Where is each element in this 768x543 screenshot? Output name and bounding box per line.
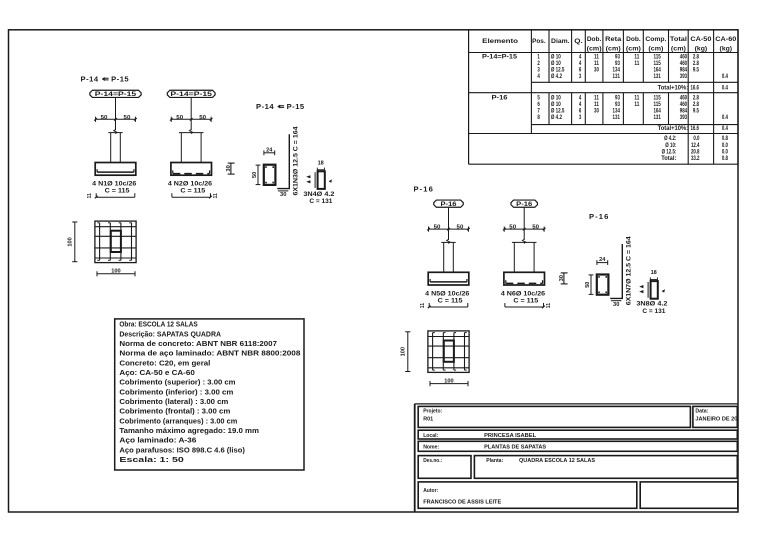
svg-text:(cm): (cm) (648, 45, 663, 52)
table header texts (482, 36, 737, 52)
hook length bracket 11 P-14=P-15 (172, 196, 211, 198)
column cross-section with stirrup (597, 275, 609, 295)
svg-text:30: 30 (594, 67, 599, 74)
leader line from pill to column (523, 207, 525, 240)
svg-text:Norma de concreto: ABNT NBR 61: Norma de concreto: ABNT NBR 6118:2007 (119, 339, 277, 348)
svg-text:P-14: P-14 (81, 75, 99, 84)
column marker pill P-16 (434, 200, 464, 207)
svg-text:Cobrimento (frontal) : 3.00 cm: Cobrimento (frontal) : 3.00 cm (119, 407, 230, 416)
title block: local box (418, 430, 737, 439)
svg-text:Aço: CA-50 e CA-60: Aço: CA-50 e CA-60 (119, 368, 194, 377)
svg-text:P-14=P-15: P-14=P-15 (482, 54, 518, 61)
svg-text:131: 131 (613, 114, 620, 121)
dimension 50/50 under pill P-14=P-15 (171, 118, 211, 120)
svg-text:0.4: 0.4 (722, 114, 728, 121)
plan horizontal rebars (428, 336, 469, 338)
svg-text:393: 393 (680, 114, 687, 121)
stirrup outline (651, 281, 658, 299)
plan vertical dimension 100 (407, 332, 409, 372)
footing rebar P-16 (430, 281, 467, 283)
title block: autor box (418, 482, 637, 508)
column section dimension 50 (590, 275, 592, 295)
footing body P-16 (428, 272, 469, 285)
svg-text:4 N6Ø 10c/26: 4 N6Ø 10c/26 (501, 290, 546, 297)
svg-text:18: 18 (651, 270, 657, 276)
svg-text:131: 131 (653, 73, 660, 80)
title block: des.no box (418, 456, 471, 479)
svg-text:Ø 4.2: Ø 4.2 (551, 73, 562, 80)
stirrup outline (318, 171, 325, 189)
footing plan view (95, 221, 136, 263)
svg-text:Diam.: Diam. (551, 38, 570, 45)
table summary rows (661, 135, 728, 162)
svg-text:0.4: 0.4 (722, 85, 728, 92)
title block: empty box (640, 482, 738, 508)
svg-text:30: 30 (559, 275, 565, 282)
vertical starter bar L-shape (610, 244, 622, 298)
footing body P-16 (504, 272, 545, 285)
svg-text:11: 11 (546, 303, 552, 309)
svg-text:50: 50 (101, 115, 108, 121)
svg-text:9.5: 9.5 (693, 67, 699, 74)
leg dimension 30 (611, 300, 621, 302)
svg-text:0.4: 0.4 (722, 73, 728, 80)
footing height dimension 30 (230, 163, 232, 174)
footing rebar P-14=P-15 (172, 170, 174, 173)
column shaft P-16 (441, 241, 455, 243)
stirrup hook arrows (306, 175, 310, 178)
svg-text:Total+10%:: Total+10%: (658, 85, 689, 92)
svg-text:6X1N7Ø 12.5 C = 164: 6X1N7Ø 12.5 C = 164 (625, 236, 632, 306)
svg-text:P-16: P-16 (492, 94, 509, 101)
svg-text:4: 4 (537, 73, 540, 80)
svg-text:P-16: P-16 (516, 201, 533, 208)
svg-text:9.5: 9.5 (693, 107, 699, 114)
svg-text:C = 115: C = 115 (438, 297, 463, 304)
svg-text:11: 11 (634, 60, 639, 67)
table rows element P-14=P-15 (482, 54, 728, 92)
svg-text:50: 50 (532, 225, 539, 231)
hook length bracket 11 P-14=P-15 (96, 196, 135, 198)
svg-text:4 N5Ø 10c/26: 4 N5Ø 10c/26 (425, 290, 470, 297)
svg-text:131: 131 (653, 114, 660, 121)
svg-text:131: 131 (613, 73, 620, 80)
svg-text:Cobrimento (inferior) : 3.00 c: Cobrimento (inferior) : 3.00 cm (119, 387, 233, 396)
svg-text:100: 100 (111, 269, 120, 275)
svg-text:Local:: Local: (423, 433, 438, 439)
stirrup hook line (314, 172, 316, 188)
svg-text:50: 50 (509, 225, 516, 231)
svg-text:4 N1Ø 10c/26: 4 N1Ø 10c/26 (92, 181, 137, 188)
svg-text:50: 50 (176, 115, 183, 121)
svg-text:11: 11 (634, 101, 639, 108)
plan column section (444, 341, 454, 362)
plan horizontal dimension 100 (430, 383, 468, 385)
svg-text:Total:: Total: (661, 155, 676, 162)
rebar schedule table grid (469, 30, 738, 164)
svg-text:50: 50 (124, 115, 131, 121)
leader line from pill to column (190, 98, 192, 131)
svg-text:FRANCISCO DE ASSIS LEITE: FRANCISCO DE ASSIS LEITE (423, 499, 501, 505)
svg-text:P-14=P-15: P-14=P-15 (170, 91, 212, 98)
column section dimension 50 (257, 165, 259, 185)
svg-text:R01: R01 (423, 416, 434, 422)
svg-text:Pos.: Pos. (532, 38, 546, 45)
svg-text:Concreto: C20, em geral: Concreto: C20, em geral (119, 358, 210, 367)
svg-text:Autor:: Autor: (423, 488, 438, 494)
notes text (119, 320, 300, 464)
svg-text:Projeto:: Projeto: (423, 409, 442, 415)
svg-text:P-15: P-15 (287, 102, 305, 111)
svg-text:8: 8 (537, 114, 540, 121)
plan column section (111, 231, 121, 252)
svg-text:C = 131: C = 131 (309, 198, 333, 205)
svg-text:3N8Ø 4.2: 3N8Ø 4.2 (636, 301, 668, 308)
svg-text:PRINCESA ISABEL: PRINCESA ISABEL (484, 433, 537, 439)
column shaft P-16 (512, 241, 537, 243)
svg-text:P-14: P-14 (256, 102, 274, 111)
plan horizontal dimension 100 (97, 273, 135, 275)
svg-text:P-16: P-16 (441, 201, 458, 208)
hook length bracket 11 P-16 (505, 306, 544, 308)
leader line from pill to column (448, 207, 450, 240)
dimension 50/50 under pill P-14=P-15 (96, 118, 136, 120)
svg-text:100: 100 (68, 237, 74, 246)
svg-text:(cm): (cm) (587, 45, 602, 52)
svg-text:30: 30 (594, 107, 599, 114)
svg-text:QUADRA ESCOLA 12 SALAS: QUADRA ESCOLA 12 SALAS (519, 458, 595, 464)
svg-text:(cm): (cm) (626, 45, 641, 52)
svg-text:JANEIRO DE 20: JANEIRO DE 20 (695, 417, 737, 423)
svg-text:Elemento: Elemento (482, 38, 518, 45)
footing height dimension 30 (563, 273, 565, 284)
svg-text:3: 3 (579, 73, 582, 80)
footing body P-14=P-15 (171, 163, 212, 176)
svg-text:50: 50 (457, 225, 464, 231)
svg-text:30: 30 (280, 192, 287, 198)
svg-text:30: 30 (226, 165, 232, 172)
leg dimension 30 (278, 190, 288, 192)
svg-text:P-14=P-15: P-14=P-15 (95, 91, 137, 98)
title P-14=P-15 group (81, 75, 130, 84)
svg-text:Dob.: Dob. (626, 36, 641, 43)
svg-text:P-15: P-15 (111, 75, 129, 84)
table rows element P-16 (492, 94, 729, 131)
svg-text:Cobrimento (arranques) : 3.00: Cobrimento (arranques) : 3.00 cm (119, 416, 237, 425)
column cross-section with stirrup (264, 165, 276, 185)
svg-text:Norma de aço laminado: ABNT NB: Norma de aço laminado: ABNT NBR 8800:200… (119, 349, 300, 358)
vertical starter bar L-shape (277, 134, 289, 188)
svg-text:100: 100 (444, 378, 453, 384)
svg-text:50: 50 (585, 281, 591, 287)
title block: planta box (474, 456, 737, 479)
svg-text:C = 115: C = 115 (180, 188, 205, 195)
plan horizontal rebars (95, 226, 136, 228)
svg-text:Planta:: Planta: (486, 458, 503, 464)
svg-text:(kg): (kg) (720, 45, 733, 52)
svg-text:0.4: 0.4 (722, 125, 728, 132)
svg-text:393: 393 (680, 73, 687, 80)
svg-text:PLANTAS DE SAPATAS: PLANTAS DE SAPATAS (484, 444, 546, 450)
leader line from pill to column (115, 98, 117, 131)
svg-text:4 N2Ø 10c/26: 4 N2Ø 10c/26 (168, 181, 213, 188)
svg-text:C = 115: C = 115 (513, 297, 538, 304)
svg-text:11: 11 (87, 193, 93, 199)
stirrup hook arrows (639, 285, 643, 288)
stirrup hook line (647, 282, 649, 298)
dimension 50/50 under pill P-16 (429, 228, 469, 230)
hook length bracket 11 P-16 (429, 306, 468, 308)
title block: projeto box (418, 406, 690, 427)
svg-text:33.2: 33.2 (691, 155, 700, 162)
svg-text:11: 11 (420, 303, 426, 309)
column shaft P-14=P-15 (179, 132, 204, 134)
svg-text:Nome:: Nome: (423, 444, 439, 450)
svg-text:18: 18 (318, 160, 324, 166)
svg-text:C = 115: C = 115 (105, 188, 130, 195)
svg-text:CA-50: CA-50 (690, 36, 712, 43)
svg-text:Aço laminado: A-36: Aço laminado: A-36 (119, 436, 196, 445)
svg-text:Ø 4.2: Ø 4.2 (551, 114, 562, 121)
notes box (115, 319, 304, 470)
svg-text:Aço parafusos: ISO 898.C 4.6 (: Aço parafusos: ISO 898.C 4.6 (liso) (119, 445, 245, 454)
plan vertical rebars (99, 223, 101, 260)
svg-text:16.6: 16.6 (690, 85, 699, 92)
svg-text:C = 131: C = 131 (642, 308, 666, 315)
footing rebar P-16 (505, 280, 507, 283)
svg-text:Comp.: Comp. (645, 36, 666, 43)
title P-14=P-15 detail (256, 102, 305, 111)
footing plan view (428, 331, 469, 373)
svg-text:3: 3 (579, 114, 582, 121)
svg-text:Total+10%:: Total+10%: (658, 125, 689, 132)
svg-text:(cm): (cm) (671, 45, 686, 52)
svg-text:P-16: P-16 (414, 184, 434, 193)
plan vertical dimension 100 (74, 222, 76, 262)
svg-text:Dob.: Dob. (587, 36, 602, 43)
plan vertical rebars (432, 333, 434, 371)
title block frame (415, 404, 738, 512)
column marker pill P-16 (511, 200, 538, 207)
svg-text:50: 50 (252, 172, 258, 178)
svg-text:Q.: Q. (574, 38, 583, 45)
footing rebar P-14=P-15 (97, 171, 134, 173)
svg-text:30: 30 (613, 302, 620, 308)
title block: nome box (418, 441, 737, 451)
svg-text:50: 50 (199, 115, 206, 121)
column shaft P-14=P-15 (108, 132, 122, 134)
svg-text:3N4Ø 4.2: 3N4Ø 4.2 (303, 191, 335, 198)
svg-text:(kg): (kg) (695, 45, 708, 52)
svg-text:Obra: ESCOLA 12 SALAS: Obra: ESCOLA 12 SALAS (119, 320, 197, 329)
svg-text:0.8: 0.8 (722, 155, 728, 162)
title block: data box (693, 406, 737, 427)
svg-text:11: 11 (213, 193, 219, 199)
footing body P-14=P-15 (95, 163, 136, 176)
svg-text:Cobrimento (superior) : 3.00 c: Cobrimento (superior) : 3.00 cm (119, 378, 235, 387)
svg-text:Cobrimento (lateral) : 3.00 cm: Cobrimento (lateral) : 3.00 cm (119, 397, 228, 406)
svg-text:50: 50 (434, 225, 441, 231)
svg-text:Reta: Reta (605, 36, 622, 43)
svg-text:CA-60: CA-60 (715, 36, 737, 43)
svg-text:Des.no.:: Des.no.: (423, 458, 442, 464)
svg-text:(cm): (cm) (606, 45, 621, 52)
svg-text:Escala: 1: 50: Escala: 1: 50 (119, 455, 183, 464)
svg-text:Descrição: SAPATAS QUADRA: Descrição: SAPATAS QUADRA (119, 329, 221, 338)
svg-text:Total: Total (670, 36, 687, 43)
dimension 50/50 under pill P-16 (504, 228, 544, 230)
svg-text:16.6: 16.6 (690, 125, 699, 132)
svg-text:P-16: P-16 (589, 212, 609, 221)
svg-text:Tamanho máximo agregado: 19.0: Tamanho máximo agregado: 19.0 mm (119, 426, 259, 435)
svg-text:100: 100 (401, 347, 407, 356)
svg-text:Data:: Data: (695, 409, 708, 415)
svg-text:6X1N3Ø 12.5 C = 164: 6X1N3Ø 12.5 C = 164 (292, 126, 299, 196)
column marker pill P-14=P-15 (90, 90, 141, 97)
column marker pill P-14=P-15 (167, 90, 215, 97)
